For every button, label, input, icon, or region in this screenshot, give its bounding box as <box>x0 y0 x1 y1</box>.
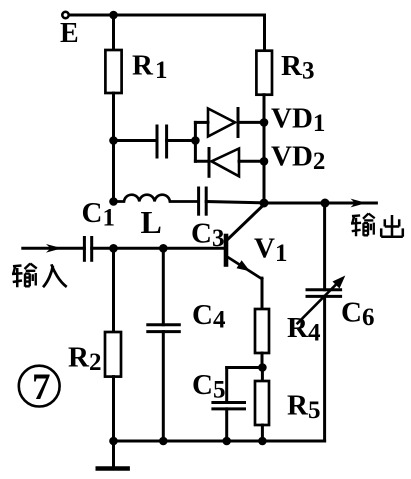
label C1 <box>82 197 115 232</box>
wire C3 to collector node <box>206 202 264 203</box>
resistor R3 <box>256 51 272 95</box>
label L <box>141 204 162 240</box>
wire right column into R3 <box>263 15 266 51</box>
resistor R1 <box>105 50 121 93</box>
inductor L <box>114 195 199 202</box>
wire C5 column upper <box>225 368 228 403</box>
wire top rail <box>70 14 265 17</box>
wire VD1 branch right <box>238 121 264 124</box>
node left column / coupling cap row <box>109 136 118 145</box>
wire collector diagonal <box>227 205 265 241</box>
label E <box>60 18 79 49</box>
wire C6 column upper <box>323 203 326 290</box>
node left column / L row <box>109 197 118 206</box>
wire C4 column upper <box>162 248 165 324</box>
wire capacitor to diode junction <box>167 139 196 142</box>
label R5 <box>287 390 320 425</box>
svg-text:V1: V1 <box>254 233 287 268</box>
node bottom rail C5 <box>222 437 231 446</box>
label C5 <box>192 369 225 404</box>
svg-text:R3: R3 <box>281 50 314 85</box>
wire emitter column into R4 <box>261 279 264 309</box>
wire right column R3 to collector node <box>263 95 266 203</box>
label R2 <box>68 342 101 377</box>
wire VD1 branch left <box>195 121 208 124</box>
wire left column R1 to node <box>112 93 115 141</box>
node VD1 / right column <box>260 118 269 127</box>
figure number 7 circled <box>19 366 60 408</box>
wire left column to L row <box>112 141 115 202</box>
terminal E <box>62 12 68 18</box>
diode VD2 <box>209 149 239 177</box>
node bottom rail C4 <box>159 437 168 446</box>
capacitor C4 <box>148 325 180 332</box>
label C3 <box>191 218 224 253</box>
node C4 column top <box>159 244 168 253</box>
wire R4 to node <box>261 353 264 368</box>
svg-text:C4: C4 <box>192 299 226 334</box>
wire C5 column lower <box>225 409 228 441</box>
node bottom rail R5 <box>258 437 267 446</box>
svg-text:VD2: VD2 <box>271 141 325 176</box>
wire C6 column lower <box>323 296 326 441</box>
diode VD1 <box>208 109 238 137</box>
wire diode branch vertical <box>194 122 197 161</box>
resistor R2 <box>105 332 121 377</box>
label R4 <box>287 312 321 347</box>
wire output rail <box>264 202 376 205</box>
capacitor C3 <box>199 188 207 214</box>
label C6 <box>341 297 374 332</box>
svg-text:R5: R5 <box>287 390 320 425</box>
svg-text:R2: R2 <box>68 342 101 377</box>
node A base wire left <box>109 244 118 253</box>
label C4 <box>192 299 226 334</box>
wire bottom rail <box>114 440 325 443</box>
svg-text:C6: C6 <box>341 297 374 332</box>
wire C1 to node A <box>92 247 114 250</box>
label output 输出 <box>351 213 403 236</box>
resistor R5 <box>255 381 269 425</box>
node top rail / R1 junction <box>109 11 118 20</box>
resistor R4 <box>255 309 269 353</box>
wire input lead <box>23 247 85 250</box>
svg-text:VD1: VD1 <box>271 103 325 138</box>
wire left column node A to R2 <box>112 248 115 332</box>
label R3 <box>281 50 314 85</box>
wire base <box>114 247 225 250</box>
wire C4 column lower <box>162 332 165 441</box>
capacitor C6 variable <box>298 276 346 324</box>
svg-text:7: 7 <box>32 367 51 408</box>
capacitor C1 <box>84 238 91 261</box>
label input 输入 <box>12 264 67 288</box>
arrow output <box>351 199 367 208</box>
label V1 <box>254 233 287 268</box>
wire R2 to bottom rail <box>112 377 115 441</box>
label VD2 <box>271 141 325 176</box>
label VD1 <box>271 103 325 138</box>
svg-text:L: L <box>141 204 162 240</box>
wire to coupling capacitor <box>114 139 158 142</box>
svg-text:R1: R1 <box>132 50 167 85</box>
ground <box>98 441 128 469</box>
node output / C6 column <box>321 199 330 208</box>
node collector <box>260 199 269 208</box>
node VD2 / right column <box>260 157 269 166</box>
transistor V1 <box>226 236 262 309</box>
capacitor (coupling to diodes) <box>157 126 167 157</box>
capacitor C5 <box>213 403 245 409</box>
node diode branch junction <box>191 136 200 145</box>
node bottom rail left <box>109 437 118 446</box>
wire VD2 branch right <box>239 160 264 163</box>
wire R5 to bottom rail <box>261 425 264 441</box>
wire node to C5 <box>227 366 263 369</box>
wire node to R5 <box>261 368 264 382</box>
svg-text:C5: C5 <box>192 369 225 404</box>
arrow input <box>46 244 62 253</box>
wire VD2 branch left <box>195 160 209 163</box>
wire R1 top stub <box>112 15 115 50</box>
label R1 <box>132 50 167 85</box>
node R4 R5 C5 junction <box>258 363 267 372</box>
svg-text:E: E <box>60 18 79 49</box>
